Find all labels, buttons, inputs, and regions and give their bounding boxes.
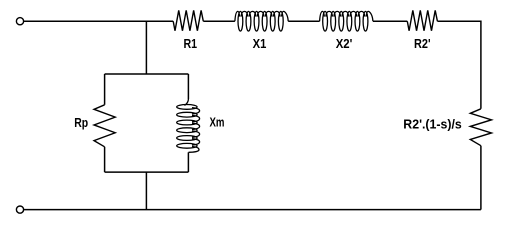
resistor R1 [173,10,203,30]
wire parallel bottom bar [105,171,189,173]
node junction stem top [145,21,147,74]
svg-text:Rp: Rp [74,115,88,130]
svg-text:R1: R1 [184,36,198,51]
wire bottom [24,209,481,211]
wire Rp branch top [104,74,106,105]
wire R2' to right corner and down [437,21,481,109]
node junction stem bottom [145,172,147,210]
resistor R2'.(1-s)/s [470,109,491,146]
wire parallel top bar [105,73,189,75]
wire Xm branch bottom [187,152,189,172]
inductor X2' [320,11,373,31]
wire X1 to X2' [288,20,319,22]
input terminal bottom [16,206,23,213]
wire Rp branch bottom [104,147,106,172]
resistor Rp [94,105,115,147]
svg-text:X1: X1 [253,36,267,51]
svg-text:X2': X2' [336,36,353,51]
wire top-left [24,20,174,22]
svg-text:R2': R2' [414,36,431,51]
svg-text:Xm: Xm [210,115,225,130]
wire X2' to R2' [373,20,407,22]
wire R1 to X1 [203,20,235,22]
wire right-bottom [480,146,482,210]
inductor Xm [177,99,200,152]
resistor R2' [407,10,437,30]
inductor X1 [235,11,288,31]
input terminal top [16,18,23,25]
wire Xm branch top [187,74,189,99]
svg-text:R2'.(1-s)/s: R2'.(1-s)/s [403,116,462,131]
